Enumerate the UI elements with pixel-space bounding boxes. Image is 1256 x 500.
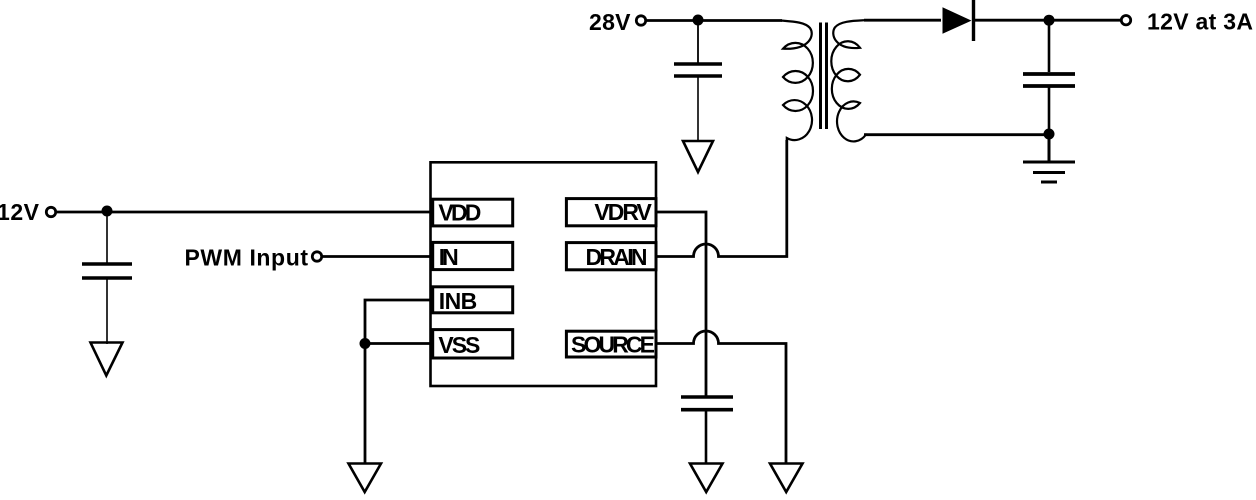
- wire secondary bottom to output ground node: [864, 133, 1049, 136]
- ground (VDRV capacitor): [690, 464, 723, 493]
- node INB/VSS junction: [360, 338, 371, 349]
- node 28V/capacitor junction: [693, 15, 704, 26]
- ground (output, earth symbol): [1023, 134, 1075, 182]
- transformer T1 primary winding: [781, 21, 813, 141]
- diode D1: [943, 0, 974, 41]
- wire junction to ground: [364, 344, 367, 464]
- IC U1 gate-driver outline: [431, 162, 657, 386]
- terminal 12V: [0, 199, 56, 225]
- terminal PWM Input: [185, 245, 322, 271]
- wire VDRV down to capacitor: [655, 212, 706, 397]
- node output/capacitor junction: [1044, 15, 1055, 26]
- pin IN: [433, 242, 513, 269]
- capacitor C2 (28V bypass): [674, 20, 722, 141]
- svg-text:PWM Input: PWM Input: [185, 245, 309, 271]
- ground (VSS): [349, 464, 382, 493]
- terminal 28V: [589, 9, 646, 35]
- pin VDD: [433, 199, 513, 226]
- ground (28V bypass): [683, 141, 713, 172]
- pin VDRV: [566, 199, 656, 226]
- wire DRAIN to transformer primary (with hop): [655, 140, 787, 257]
- wire junction to VSS pin: [365, 342, 432, 345]
- transformer T1 core: [821, 23, 827, 130]
- svg-text:DRAIN: DRAIN: [586, 244, 648, 270]
- ground (SOURCE): [770, 464, 803, 493]
- svg-text:VDD: VDD: [438, 200, 481, 226]
- wire diode to output terminal: [975, 19, 1121, 22]
- terminal 12V at 3A: [1121, 9, 1253, 35]
- capacitor C4 (VDRV): [681, 397, 733, 463]
- svg-text:SOURCE: SOURCE: [571, 332, 655, 358]
- pin DRAIN: [566, 243, 656, 270]
- svg-text:INB: INB: [439, 288, 478, 314]
- transformer T1 secondary winding: [831, 20, 870, 141]
- node 12V/capacitor junction: [102, 206, 113, 217]
- pin INB: [433, 287, 513, 314]
- svg-text:12V: 12V: [0, 199, 40, 225]
- ground (12V bypass): [91, 343, 123, 376]
- capacitor C1 (12V bypass): [82, 211, 132, 344]
- svg-text:12V at 3A: 12V at 3A: [1147, 9, 1253, 35]
- wire 28V to transformer primary: [646, 19, 782, 22]
- node secondary/capacitor junction: [1044, 129, 1055, 140]
- svg-text:VSS: VSS: [438, 332, 480, 358]
- svg-text:VDRV: VDRV: [594, 199, 652, 225]
- capacitor C3 (output filter): [1023, 20, 1075, 134]
- svg-text:IN: IN: [439, 244, 459, 270]
- pin VSS: [433, 330, 513, 358]
- wire SOURCE to ground (with hop): [655, 331, 786, 463]
- wire INB to VSS junction: [365, 300, 432, 344]
- wire secondary top to diode: [864, 19, 941, 22]
- svg-text:28V: 28V: [589, 9, 631, 35]
- pin SOURCE: [566, 331, 656, 357]
- wire PWM Input to IN pin: [322, 255, 432, 258]
- wire 12V rail to VDD pin: [56, 211, 432, 214]
